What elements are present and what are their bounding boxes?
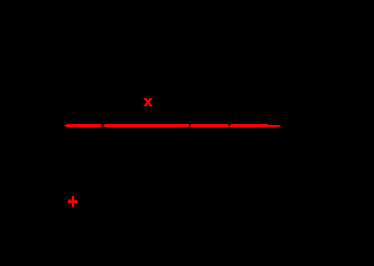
red horizontal axis line (main segment)	[67, 124, 280, 127]
marker + left nub flare	[69, 199, 71, 203]
marker x (bold red cross glyph)	[143, 98, 153, 106]
black curve crossing notch at x~189	[188, 124, 191, 128]
fading right tip of red axis	[279, 125, 281, 127]
black curve crossing notch at x~103	[101, 124, 105, 128]
marker + horizontal bar	[68, 200, 77, 203]
black overlap shaving top of axis right end	[267, 124, 283, 125]
arrowhead at left end of red axis	[64, 123, 69, 127]
marker + right end blob	[76, 200, 78, 203]
marker + vertical bar	[72, 196, 74, 207]
black curve dip notch at x~229	[228, 124, 232, 127]
